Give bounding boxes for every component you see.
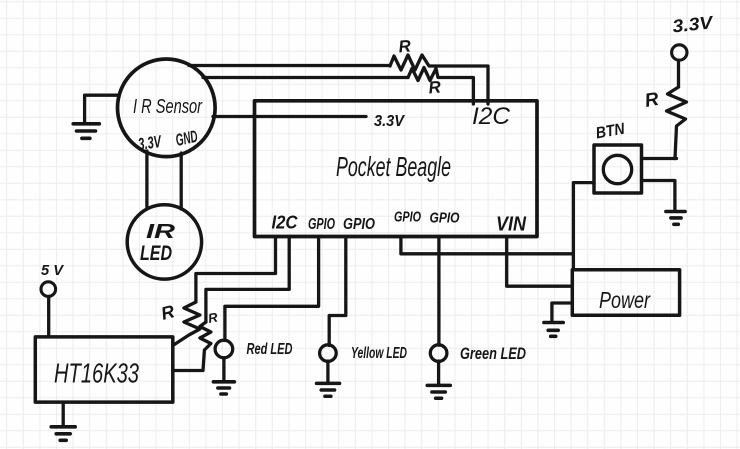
svg-text:3.3V: 3.3V [137,132,163,154]
svg-text:I2C: I2C [472,103,511,130]
svg-text:IR: IR [146,221,176,243]
svg-text:I2C: I2C [272,213,299,233]
svg-text:Yellow LED: Yellow LED [351,345,407,362]
svg-text:VIN: VIN [496,214,526,236]
svg-text:Pocket Beagle: Pocket Beagle [336,151,451,182]
svg-text:GPIO: GPIO [308,216,335,233]
svg-text:LED: LED [140,242,172,265]
svg-text:I R Sensor: I R Sensor [133,96,203,118]
svg-text:5 V: 5 V [41,262,65,279]
svg-text:HT16K33: HT16K33 [54,358,139,389]
svg-text:GPIO: GPIO [343,216,375,233]
svg-text:GPIO: GPIO [430,210,460,227]
svg-text:Green LED: Green LED [460,344,526,363]
svg-text:R: R [398,36,413,56]
svg-text:Power: Power [599,287,651,313]
svg-text:R: R [428,77,443,97]
svg-text:3.3V: 3.3V [374,113,405,130]
svg-text:Red LED: Red LED [247,341,293,358]
svg-text:GPIO: GPIO [394,210,422,226]
